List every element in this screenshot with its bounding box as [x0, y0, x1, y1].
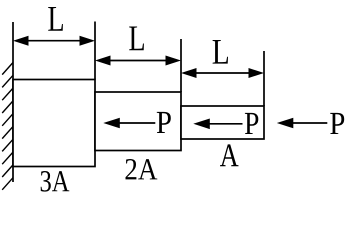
fixed wall line [12, 22, 14, 182]
force label P3 [330, 113, 344, 134]
dimension extension line at x=264 [263, 51, 265, 106]
dimension label L (first) [48, 7, 63, 31]
wall hatching [2, 63, 13, 190]
dimension arrow L1 (double-headed) [13, 36, 95, 46]
area label 3A [41, 171, 70, 192]
dimension arrow L2 (double-headed) [95, 56, 181, 66]
dimension arrow L3 (double-headed) [181, 68, 264, 78]
force arrow P2 (inside A block) [193, 119, 242, 130]
bar segment 3A (largest block) [13, 80, 95, 167]
force arrow P1 (inside 2A block) [103, 118, 155, 129]
force label P1 [157, 112, 171, 133]
area label 2A [126, 159, 158, 179]
dimension label L (second) [129, 27, 144, 51]
force arrow P3 (free end, right of bar) [277, 118, 328, 129]
bar segment 2A (middle block) [95, 92, 181, 151]
dimension label L (third) [213, 40, 228, 64]
area label A [220, 144, 239, 166]
force label P2 [245, 113, 258, 134]
dimension extension line at x=181 [180, 39, 182, 92]
bar segment A (smallest block) [181, 106, 264, 139]
dimension extension line at x=95 [94, 22, 96, 80]
